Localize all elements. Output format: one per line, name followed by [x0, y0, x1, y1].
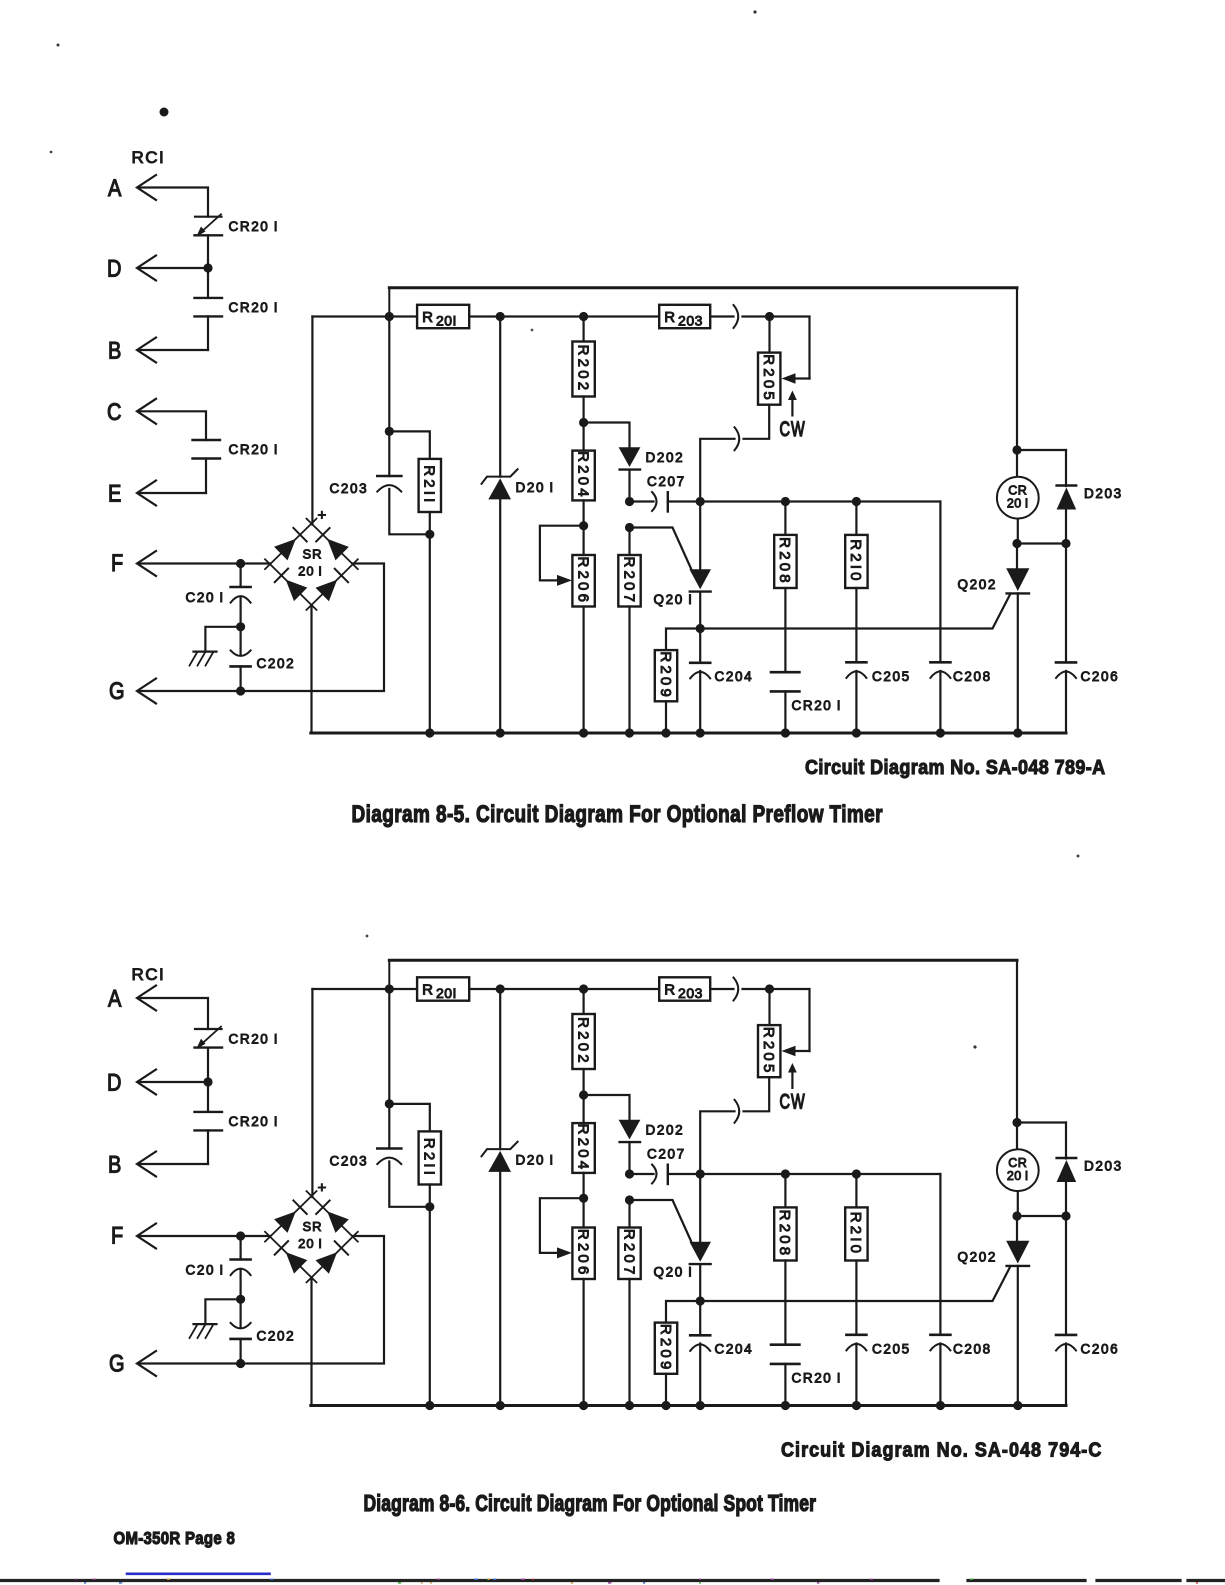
svg-text:A: A [108, 174, 122, 201]
connector B arrow [137, 338, 156, 363]
wire C201 bottom lead [240, 598, 242, 627]
node R210 top (8-6) [852, 1169, 861, 1178]
node R201 left junction [385, 312, 394, 321]
svg-text:A: A [108, 985, 122, 1012]
node C207 left junction [625, 497, 634, 506]
wire R205 top lead [768, 317, 770, 353]
node R211 bottom junction (8-6) [425, 1202, 434, 1211]
wire top rail (8-6) [389, 959, 1017, 962]
wire D202 to C207 node (8-6) [628, 1142, 630, 1174]
wire R204 to R206 (8-6) [582, 1198, 584, 1227]
connector plug on R203 line [734, 305, 739, 328]
wire D201 to bus (8-6) [499, 1172, 501, 1406]
resistor R211 (8-6) [419, 1131, 441, 1184]
relay contact CR201 [771, 671, 799, 674]
diode D203 (8-6) [1065, 1123, 1067, 1159]
resistor R206 [572, 555, 594, 607]
node bus R211 [425, 728, 434, 737]
svg-text:R2II: R2II [421, 465, 438, 505]
scan speck [160, 108, 169, 117]
svg-text:R202: R202 [574, 345, 591, 394]
wire R208 to contact [784, 588, 786, 672]
relay contact CR201 third [193, 439, 221, 441]
svg-text:RCI: RCI [132, 148, 166, 167]
footer dashed page edge [0, 1579, 938, 1582]
svg-text:SR: SR [302, 547, 322, 562]
node bus C204 [696, 728, 705, 737]
svg-text:R206: R206 [574, 556, 591, 605]
svg-text:R208: R208 [776, 1210, 793, 1259]
wire C205 to bus [855, 671, 857, 733]
wire ground branch [205, 627, 240, 650]
resistor R201 (8-6) [417, 977, 469, 1000]
svg-text:20 I: 20 I [1007, 1169, 1029, 1183]
svg-text:G: G [109, 1350, 125, 1377]
svg-text:C20 I: C20 I [186, 590, 225, 605]
wire C203 bottom lead (8-6) [389, 1162, 430, 1207]
wire bridge bottom to bus [310, 605, 312, 733]
wire R204 top lead [582, 423, 584, 451]
bridge rectifier SR201 [265, 519, 317, 570]
connector F arrow [137, 551, 156, 576]
capacitor C205 [846, 661, 866, 664]
wire R206 wiper branch (8-6) [540, 1198, 584, 1253]
resistor R207 (8-6) [618, 1228, 640, 1280]
resistor R209 [655, 650, 677, 701]
node Q201 gate junction [625, 523, 634, 532]
scan speck [57, 44, 60, 47]
svg-text:Q202: Q202 [958, 577, 997, 592]
wire R211 to bus (8-6) [429, 1185, 431, 1406]
wire C202 to G line [240, 666, 242, 691]
diode D203 [1065, 450, 1067, 486]
node bus R209 (8-6) [661, 1401, 670, 1410]
wire connector to R205 top corner [743, 317, 810, 379]
wire branch to D202 [584, 423, 630, 448]
node bus R207 [625, 728, 634, 737]
node bus C205 [852, 728, 861, 737]
resistor R206 (8-6) [572, 1228, 594, 1280]
node R208 top [781, 497, 790, 506]
wire left vertical to bridge + terminal (8-6) [311, 989, 313, 1197]
capacitor C201 (8-6) [231, 1258, 251, 1261]
connector G arrow (8-6) [137, 1351, 156, 1376]
wire R209 to bus (8-6) [665, 1374, 667, 1406]
svg-text:C202: C202 [257, 656, 296, 671]
svg-text:CW: CW [780, 1090, 806, 1113]
node C201 top (8-6) [236, 1231, 245, 1240]
svg-text:CR20 I: CR20 I [229, 300, 280, 315]
wire R211 to bus [429, 512, 431, 733]
svg-text:R207: R207 [620, 556, 637, 605]
node bus R211 (8-6) [425, 1401, 434, 1410]
svg-text:F: F [111, 549, 123, 576]
relay coil CR201 [997, 477, 1039, 519]
wire connector to R205 top corner (8-6) [743, 989, 810, 1051]
node R202-R204-D202 junction (8-6) [579, 1090, 588, 1099]
wire C207 line to C208 [939, 502, 941, 663]
wire contact to D node (8-6) [207, 1048, 209, 1082]
wire D to contact 2 [207, 268, 209, 298]
svg-text:R20I: R20I [422, 309, 457, 329]
wire C206 to bus (8-6) [1065, 1344, 1067, 1406]
svg-text:R209: R209 [657, 1324, 674, 1373]
wire C204 top lead [699, 629, 701, 663]
node bus Q202 (8-6) [1013, 1401, 1022, 1410]
wire R206 wiper branch [540, 526, 584, 581]
wire F line [140, 562, 270, 564]
node C201-C202-ground junction (8-6) [236, 1295, 245, 1304]
wire branch to R211 top (8-6) [389, 1104, 430, 1132]
wire R202 bottom lead (8-6) [582, 1069, 584, 1095]
wire C206 top lead (8-6) [1065, 1216, 1067, 1335]
node C201 top [236, 559, 245, 568]
scan speck [366, 935, 369, 938]
capacitor C206 (8-6) [1056, 1334, 1076, 1337]
node Q201 gate junction (8-6) [625, 1195, 634, 1204]
svg-text:D: D [107, 255, 121, 282]
svg-text:R207: R207 [620, 1229, 637, 1278]
wire relay top to D203 top [1017, 449, 1066, 451]
svg-text:Circuit Diagram No. SA-048 789: Circuit Diagram No. SA-048 789-A [805, 756, 1106, 779]
svg-text:C20 I: C20 I [186, 1263, 225, 1278]
svg-text:R2I0: R2I0 [847, 1212, 864, 1257]
svg-text:RCI: RCI [132, 965, 166, 984]
relay contact CR201 second (8-6) [195, 1111, 223, 1113]
wire D201 to bus [499, 499, 501, 733]
resistor R204 [572, 451, 594, 501]
wire G line to bridge right corner [140, 564, 384, 692]
node bus R206 (8-6) [579, 1401, 588, 1410]
wire C203 top lead (8-6) [388, 989, 390, 1149]
relay contact CR201 (8-6) [771, 1343, 799, 1346]
wire C202 to G line (8-6) [240, 1339, 242, 1364]
wire relay coil top lead [1016, 450, 1018, 477]
resistor R207 [618, 555, 640, 607]
svg-text:D20 I: D20 I [516, 480, 555, 495]
wire C201 bottom lead (8-6) [240, 1271, 242, 1300]
CW arrow [791, 398, 793, 415]
SCR Q202 [1016, 544, 1018, 569]
wire R209 top lead [666, 629, 700, 651]
wire contact 2 to B (8-6) [207, 1130, 209, 1164]
svg-text:SR: SR [302, 1219, 322, 1234]
wire relay coil bottom lead [1017, 519, 1019, 544]
wire contact to D node [207, 235, 209, 268]
svg-text:C: C [107, 398, 121, 425]
wire D202 to C207 node [628, 470, 630, 502]
wire C208 to bus [939, 671, 941, 733]
wire R208 top lead (8-6) [784, 1174, 786, 1207]
svg-text:R206: R206 [574, 1229, 591, 1278]
wire R201 to R203 [469, 315, 659, 317]
svg-text:CR20 I: CR20 I [229, 1031, 280, 1046]
node bus C208 [936, 728, 945, 737]
svg-text:CR20 I: CR20 I [792, 1371, 843, 1386]
wire Q201 gate (8-6) [630, 1200, 692, 1241]
svg-text:20 I: 20 I [298, 1236, 323, 1251]
wire bottom bus [311, 732, 1066, 735]
svg-text:R209: R209 [657, 651, 674, 700]
wire R203 to connector (8-6) [710, 988, 733, 990]
node bus R206 [579, 728, 588, 737]
ground symbol (8-6) [194, 1323, 217, 1325]
wire A line (8-6) [140, 998, 208, 1029]
relay contact CR201 timed (8-6) [195, 1028, 222, 1030]
resistor R209 (8-6) [655, 1323, 677, 1374]
wire R207 top lead [628, 528, 630, 556]
wire top rail [389, 286, 1017, 289]
node bus R207 (8-6) [625, 1401, 634, 1410]
node R202 branch (8-6) [579, 984, 588, 993]
node C203-R211 top junction (8-6) [385, 1099, 394, 1108]
svg-text:C205: C205 [872, 1342, 911, 1357]
wire R209 to bus [665, 701, 667, 733]
wire B line (8-6) [140, 1163, 208, 1165]
resistor R208 (8-6) [774, 1207, 796, 1260]
diode D202 [619, 447, 641, 467]
wire rail down to relay (8-6) [1016, 960, 1018, 1122]
node R211 bottom junction [425, 530, 434, 539]
connector plug on R205 bottom line (8-6) [735, 1100, 740, 1123]
wire R210 top lead (8-6) [855, 1174, 857, 1207]
wire R202 top lead (8-6) [582, 989, 584, 1014]
node Q201 anode [696, 497, 705, 506]
relay coil CR201 (8-6) [997, 1149, 1039, 1191]
relay contact CR201 second [195, 297, 223, 299]
bridge rectifier SR201 (8-6) [265, 1191, 317, 1242]
wire R202 top lead [582, 317, 584, 342]
node C202 bottom [236, 686, 245, 695]
wire C206 to bus [1065, 671, 1067, 733]
svg-text:R202: R202 [574, 1017, 591, 1066]
connector A arrow [137, 175, 156, 200]
svg-text:D: D [107, 1069, 121, 1096]
wire connector to C207 node (8-6) [700, 1111, 734, 1174]
node bus C205 (8-6) [852, 1401, 861, 1410]
capacitor C202 (8-6) [240, 1299, 242, 1327]
node bus CR201 contact [781, 728, 790, 737]
wire D line [140, 267, 208, 269]
wire C205 to bus (8-6) [855, 1344, 857, 1406]
capacitor C208 (8-6) [930, 1334, 950, 1337]
wire R204 bottom lead (8-6) [582, 1173, 584, 1198]
node R202 branch [579, 312, 588, 321]
svg-text:C203: C203 [330, 481, 369, 496]
SCR Q201 (8-6) [699, 1174, 701, 1242]
svg-text:R205: R205 [760, 354, 777, 403]
wire C206 top lead [1065, 544, 1067, 663]
svg-text:Q20 I: Q20 I [654, 592, 694, 607]
wire R207 to bus (8-6) [628, 1279, 630, 1406]
svg-text:C207: C207 [647, 474, 686, 489]
wiper arrow into R205 [794, 377, 810, 379]
connector plug on R203 line (8-6) [734, 978, 739, 1001]
svg-text:CR: CR [1008, 1156, 1027, 1170]
wire Q201 cathode to Q202 gate [700, 594, 1010, 629]
resistor R208 [774, 535, 796, 588]
svg-text:CR: CR [1008, 484, 1027, 498]
wire R208 to contact (8-6) [784, 1261, 786, 1345]
capacitor C204 (8-6) [690, 1334, 710, 1337]
svg-text:R2I0: R2I0 [847, 539, 864, 584]
scan speck [753, 10, 756, 13]
svg-text:C208: C208 [953, 1342, 992, 1357]
wire C204 to bus [699, 671, 701, 733]
diode D202 (8-6) [619, 1120, 641, 1140]
svg-text:R203: R203 [664, 309, 703, 329]
wire ground branch (8-6) [205, 1299, 240, 1322]
capacitor C203 [377, 475, 401, 478]
wire left vertical to bridge + terminal [311, 317, 313, 525]
resistor R202 [572, 342, 594, 397]
wire branch to R211 top [389, 431, 430, 459]
svg-text:+: + [318, 507, 328, 524]
wire to C207 (8-6) [630, 1173, 654, 1175]
wire R207 to bus [628, 607, 630, 734]
node R205 top [765, 312, 774, 321]
SCR Q202 (8-6) [1016, 1216, 1018, 1241]
svg-text:Circuit Diagram No. SA-048 794: Circuit Diagram No. SA-048 794-C [781, 1438, 1102, 1461]
resistor R205 (8-6) [758, 1025, 780, 1077]
svg-text:B: B [108, 1151, 121, 1178]
connector B arrow (8-6) [137, 1152, 156, 1177]
svg-text:20 I: 20 I [298, 564, 323, 579]
wire R201 line left segment [312, 315, 417, 317]
resistor R210 (8-6) [845, 1207, 867, 1260]
svg-text:Q202: Q202 [958, 1250, 997, 1265]
node bus D201 (8-6) [496, 1401, 505, 1410]
node Q201 anode (8-6) [696, 1169, 705, 1178]
svg-text:Diagram 8-6. Circuit Diagram F: Diagram 8-6. Circuit Diagram For Optiona… [364, 1492, 817, 1517]
connector plug on R205 bottom line [735, 427, 740, 450]
wire rail down to relay [1016, 288, 1018, 450]
svg-text:CR20 I: CR20 I [792, 698, 843, 713]
wire R205 bottom lead (8-6) [744, 1077, 770, 1111]
wire R207 top lead (8-6) [628, 1200, 630, 1228]
wire G line to bridge right corner (8-6) [140, 1236, 384, 1364]
node R205 top (8-6) [765, 984, 774, 993]
svg-text:20 I: 20 I [1007, 497, 1029, 511]
capacitor C207 [652, 492, 657, 511]
svg-text:Q20 I: Q20 I [654, 1265, 694, 1280]
wire R210 to C205 [855, 588, 857, 662]
capacitor C202 [240, 627, 242, 655]
svg-text:CR20 I: CR20 I [229, 219, 280, 234]
node C201-C202-ground junction [236, 622, 245, 631]
node D junction [203, 263, 212, 272]
svg-text:CR20 I: CR20 I [229, 442, 280, 457]
svg-text:C204: C204 [715, 1342, 754, 1357]
wire connector to C207 node [700, 439, 734, 502]
wire R209 top lead (8-6) [666, 1301, 700, 1323]
node relay bottom junction (8-6) [1012, 1211, 1021, 1220]
node Q201 cathode junction [696, 624, 705, 633]
node bus Q202 [1013, 728, 1022, 737]
wire R204 bottom lead [582, 500, 584, 525]
wire A line [140, 188, 208, 217]
wire R205 top lead (8-6) [768, 989, 770, 1025]
node R202-R204-D202 junction [579, 418, 588, 427]
resistor R211 [419, 459, 441, 512]
wire C207 line (8-6) [668, 1173, 941, 1175]
svg-text:R2II: R2II [421, 1138, 438, 1178]
wire R203 to connector [710, 315, 733, 317]
svg-text:D203: D203 [1084, 1159, 1123, 1174]
wire contact to bus [784, 691, 786, 733]
wire C208 to bus (8-6) [939, 1344, 941, 1406]
node R210 top [852, 497, 861, 506]
wiper arrow into R206 [557, 575, 572, 586]
wire contact 2 to B [207, 316, 209, 350]
connector F arrow (8-6) [137, 1224, 156, 1249]
svg-text:C208: C208 [953, 669, 992, 684]
connector G arrow [137, 679, 156, 704]
svg-text:CR20 I: CR20 I [229, 1114, 280, 1129]
capacitor C201 [231, 586, 251, 589]
node D203 bottom junction (8-6) [1061, 1211, 1070, 1220]
scan speck [1077, 855, 1080, 858]
wiper arrow into R205 (8-6) [794, 1050, 810, 1052]
capacitor C204 [690, 661, 710, 664]
wire bottom bus (8-6) [311, 1404, 1066, 1407]
wire branch to D202 (8-6) [584, 1095, 630, 1120]
wire relay bottom to C206 column [1017, 542, 1066, 544]
node D203 bottom junction [1061, 539, 1070, 548]
node bus R209 [661, 728, 670, 737]
node relay top junction [1012, 445, 1021, 454]
wire C201 top lead [240, 564, 242, 588]
svg-text:OM-350R Page 8: OM-350R Page 8 [114, 1528, 236, 1549]
svg-text:D203: D203 [1084, 486, 1123, 501]
capacitor C205 (8-6) [846, 1334, 866, 1337]
wire bridge bottom to bus (8-6) [310, 1278, 312, 1406]
wire D to contact 2 (8-6) [207, 1082, 209, 1112]
wire R210 to C205 (8-6) [855, 1261, 857, 1335]
wire F line (8-6) [140, 1235, 270, 1237]
node D201 branch [496, 312, 505, 321]
node C207 left junction (8-6) [625, 1169, 634, 1178]
capacitor C203 (8-6) [377, 1147, 401, 1150]
svg-text:D20 I: D20 I [516, 1153, 555, 1168]
svg-text:R203: R203 [664, 982, 703, 1002]
node bus D201 [496, 728, 505, 737]
svg-text:C205: C205 [872, 669, 911, 684]
footer blue line [127, 1573, 270, 1576]
SCR Q201 [699, 502, 701, 570]
connector A arrow (8-6) [137, 986, 156, 1011]
wire C201 top lead (8-6) [240, 1236, 242, 1260]
wire E line [140, 492, 206, 494]
wire contact 3 to E [205, 459, 207, 494]
connector D arrow (8-6) [137, 1070, 156, 1095]
wire R201 line left segment (8-6) [312, 988, 417, 990]
wire C207 line [668, 500, 941, 502]
svg-text:G: G [109, 677, 125, 704]
wire relay top to D203 top (8-6) [1017, 1121, 1066, 1123]
wire R201 to R203 (8-6) [469, 988, 659, 990]
resistor R205 [758, 353, 780, 405]
node relay top junction (8-6) [1012, 1118, 1021, 1127]
node C203-R211 top junction [385, 427, 394, 436]
node R204-R206 junction [579, 521, 588, 530]
wire to C207 [630, 500, 654, 502]
wire C203 top lead [388, 317, 390, 477]
wire rail to R201 line (8-6) [388, 960, 390, 989]
node D201 branch (8-6) [496, 984, 505, 993]
svg-text:R208: R208 [776, 537, 793, 586]
wire relay bottom to C206 column (8-6) [1017, 1215, 1066, 1217]
